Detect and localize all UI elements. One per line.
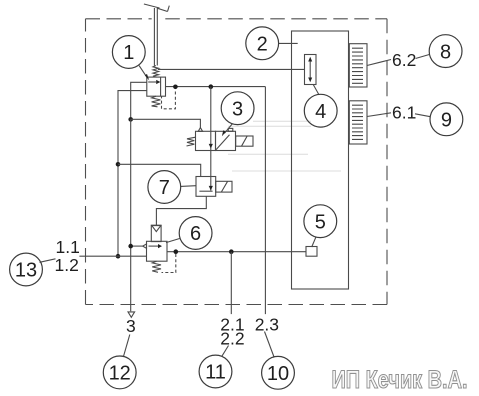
- leader: circle 11: [222, 346, 229, 357]
- wire: vertical x130.7 down to output 3: [130, 119, 132, 311]
- leader: circle 12: [124, 335, 130, 357]
- leader: circle 3 to valve 3: [224, 124, 232, 134]
- valve 7 solenoid: [216, 181, 232, 192]
- wire: main line 2 from valve 6 right port to item 5: [167, 251, 306, 253]
- svg-text:6.1: 6.1: [392, 102, 416, 122]
- leader: circle 1 to valve 1: [139, 66, 147, 79]
- circle 9: [430, 103, 463, 136]
- valve 1 body: [147, 77, 166, 96]
- svg-text:9: 9: [441, 110, 452, 132]
- svg-text:6: 6: [190, 223, 201, 245]
- wire: supply to item 4: [158, 68, 305, 70]
- leader: box 6.1 to label: [367, 113, 391, 117]
- connector 6.1 hatched box: [349, 101, 367, 144]
- output 3 open arrowhead: [128, 312, 135, 317]
- circle 6: [179, 217, 212, 250]
- svg-text:10: 10: [267, 363, 289, 385]
- unit 2 main block rectangle: [292, 31, 349, 289]
- lever handle: [144, 4, 160, 8]
- svg-text:1: 1: [123, 42, 134, 64]
- wire: output 2.1/2.2: [230, 252, 232, 314]
- valve 7 internal seat bar: [199, 190, 212, 192]
- faint watermark lines mid drawing: [228, 121, 341, 171]
- leader: box 6.2 to label: [367, 60, 391, 66]
- node dot B: [209, 84, 214, 89]
- svg-text:8: 8: [440, 41, 451, 63]
- valve 1 pilot dashed line: [162, 92, 176, 109]
- wire: x130.7 to valve 6 left port: [131, 245, 143, 247]
- wire: y164 branch to valve 7: [118, 164, 201, 176]
- wire: line 1.1/1.2: [79, 255, 146, 257]
- connector 6.2 hatched box: [349, 44, 367, 87]
- node dot D: [116, 162, 121, 167]
- circle 2: [246, 27, 279, 60]
- wire: circle 2 leader: [279, 42, 298, 44]
- leader: circle 10: [265, 332, 275, 358]
- svg-text:2.3: 2.3: [255, 315, 279, 335]
- dashed enclosure border: [86, 19, 388, 305]
- valve 7 internal down arrowhead: [209, 186, 213, 191]
- svg-text:7: 7: [159, 177, 170, 199]
- valve 6 inlet triangle: [152, 226, 161, 232]
- leader: label 6.1 to circle 9: [415, 114, 430, 117]
- valve 3 left top port triangle: [198, 128, 202, 132]
- port labels: [55, 50, 417, 349]
- svg-text:1.2: 1.2: [55, 255, 79, 275]
- valve 3 right square diagonal: [216, 135, 230, 150]
- leader: circle 4: [313, 85, 319, 95]
- valve 1 internal arrow: [148, 81, 156, 83]
- valve 7 body: [196, 177, 216, 197]
- valve 1 spring below: [152, 96, 161, 107]
- valve 6 pilot dashed: [162, 254, 176, 273]
- node dot E: [116, 254, 121, 259]
- valve 3 left square: [196, 131, 216, 150]
- valve 3 right top port stub: [228, 128, 233, 131]
- node dot H: [229, 249, 234, 254]
- circle 3: [221, 92, 254, 125]
- wire: valve1 lower-left port: [118, 91, 147, 257]
- wire: output 2.3: [264, 87, 266, 315]
- circle 11: [199, 355, 232, 388]
- circle 4: [304, 94, 337, 127]
- valve 6 left port open arrowhead: [143, 244, 147, 248]
- svg-text:2.2: 2.2: [220, 329, 244, 349]
- node dot C: [128, 117, 133, 122]
- valve 6 body: [147, 241, 168, 261]
- item 4 rectangle: [305, 55, 317, 85]
- node dot A: [173, 85, 178, 90]
- valve 1 internal vertical line: [160, 77, 162, 96]
- circle 13: [10, 253, 43, 286]
- leader: circle 6: [166, 239, 180, 243]
- valve 6 spring below: [152, 261, 161, 272]
- circle 7: [148, 171, 181, 204]
- svg-text:5: 5: [315, 211, 326, 233]
- leader: label 6.2 to circle 8: [416, 55, 430, 59]
- svg-text:4: 4: [315, 101, 326, 123]
- wire: valve1 upper-left port: [131, 82, 147, 119]
- circle 8: [429, 35, 462, 68]
- circle 5: [304, 205, 337, 238]
- svg-text:12: 12: [109, 363, 131, 385]
- circle 12: [103, 356, 136, 389]
- wire: valve1 right port to x265 corner: [166, 86, 266, 88]
- item 4 double arrow: [309, 60, 311, 79]
- valve 3 solenoid: [236, 136, 253, 146]
- leader: circle 13: [40, 259, 56, 263]
- leader: circle 5: [312, 237, 316, 247]
- item 5 square: [306, 247, 317, 257]
- lever rod (double line): [153, 8, 155, 66]
- node dot G: [174, 249, 179, 254]
- circle 1: [112, 36, 145, 69]
- circle 10: [262, 356, 295, 389]
- svg-text:2: 2: [257, 34, 268, 56]
- svg-text:13: 13: [15, 260, 37, 282]
- svg-text:3: 3: [126, 316, 136, 336]
- svg-text:3: 3: [232, 98, 243, 120]
- spring above valve 1: [153, 66, 159, 78]
- valve 6 internal arrow: [149, 245, 159, 247]
- valve 6 collar: [151, 225, 161, 241]
- wire: main vertical through valve 3 and valve 7: [210, 87, 212, 191]
- wire: valve 7 bottom to valve 6 top: [156, 196, 206, 225]
- leader: circle 7: [180, 185, 196, 188]
- valve 3 right square: [216, 131, 236, 150]
- node dot F: [128, 244, 133, 249]
- svg-text:6.2: 6.2: [392, 50, 416, 70]
- svg-text:11: 11: [205, 362, 226, 384]
- valve 3 spring: [187, 137, 196, 146]
- svg-text:ИП Кечик В.А.: ИП Кечик В.А.: [332, 366, 468, 394]
- valve 3 internal down arrowhead: [209, 144, 213, 149]
- wire: node C to valve 3 top port: [131, 119, 201, 128]
